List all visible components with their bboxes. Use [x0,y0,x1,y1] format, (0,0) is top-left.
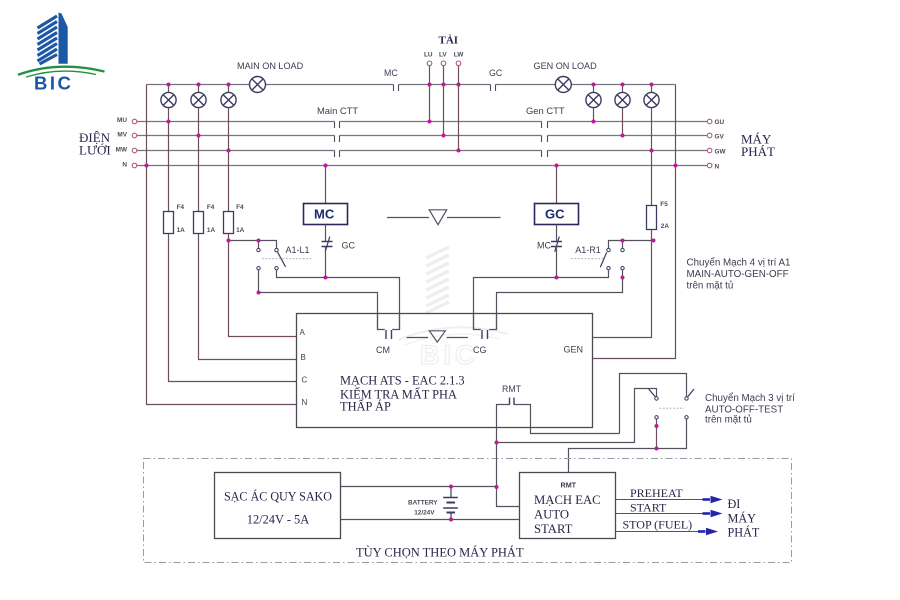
svg-text:Gen CTT: Gen CTT [526,105,565,116]
svg-text:GEN ON LOAD: GEN ON LOAD [534,61,598,71]
svg-text:MW: MW [116,146,128,153]
svg-text:Chuyển Mạch 3 vị trí: Chuyển Mạch 3 vị trí [705,393,795,404]
svg-text:B: B [301,353,306,362]
NC contact GC under coil MC [325,225,327,242]
svg-text:LW: LW [454,52,465,59]
fuse F5 wire [593,230,652,338]
svg-text:MAIN ON LOAD: MAIN ON LOAD [237,61,304,71]
svg-text:2A: 2A [661,223,670,230]
contactor coil MC [304,204,348,225]
wire A1-R1 pole1 to CG [474,270,609,329]
wire charger plus to battery and RMT drop [341,486,497,488]
wire AUTO contact bottom [656,419,658,448]
svg-text:AUTO: AUTO [534,508,569,522]
terminal LU [427,61,432,66]
top load bus [147,84,676,86]
generator terminals [707,119,712,124]
wire TEST switch top feed [620,374,687,434]
load break symbol (triangle) top [387,210,501,225]
svg-text:MV: MV [117,132,127,139]
svg-text:GC: GC [342,241,356,251]
contactor coil GC [535,204,579,225]
svg-text:MC: MC [314,207,335,222]
svg-text:F4: F4 [236,204,244,211]
svg-text:MAIN-AUTO-GEN-OFF: MAIN-AUTO-GEN-OFF [687,269,789,280]
battery charger box SAC AC QUY SAKO [215,473,341,539]
svg-text:12/24V - 5A: 12/24V - 5A [247,513,309,527]
svg-text:Main CTT: Main CTT [317,105,358,116]
watermark BIC logo (faint center) [398,247,508,370]
arrow preheat [703,498,711,501]
svg-text:ĐI: ĐI [728,497,741,511]
svg-text:GU: GU [715,119,725,126]
svg-text:MU: MU [117,117,127,124]
battery 12/24V [443,487,458,520]
lamp HL2 [191,92,206,107]
lamp HL3 [221,92,236,107]
svg-text:A1-L1: A1-L1 [286,245,310,255]
svg-text:PREHEAT: PREHEAT [630,486,683,500]
contact MC on bus [394,85,399,92]
lamp MAIN ON LOAD [250,77,266,93]
switch A1-R1 feed wire [609,241,654,249]
svg-text:TÙY CHỌN THEO MÁY PHÁT: TÙY CHỌN THEO MÁY PHÁT [356,546,524,560]
svg-text:MẠCH EAC: MẠCH EAC [534,493,601,507]
wire A1-L1 pole1 to CM [277,270,400,329]
fuse column A wire [229,151,297,337]
lamp HL5 [615,92,630,107]
svg-text:MÁY: MÁY [728,512,757,526]
EAC controller box MACH EAC AUTO START [520,473,616,539]
wire lamp column 1 right [593,85,595,122]
BIC company logo [18,13,105,94]
svg-text:PHÁT: PHÁT [741,144,775,159]
wire RMT vertical to EAC [497,443,520,507]
ATS controller box [297,314,593,428]
svg-text:MẠCH ATS - EAC 2.1.3: MẠCH ATS - EAC 2.1.3 [340,374,465,388]
contact CM input [378,314,400,330]
load break symbol (triangle) in box [407,331,468,342]
svg-text:GEN: GEN [564,345,584,355]
switch A1-R1 [600,248,624,269]
svg-text:trên mặt tủ: trên mặt tủ [705,414,752,425]
arrow start [703,512,711,515]
optional section dashed box [144,459,792,563]
terminal LW [456,61,461,66]
svg-text:12/24V: 12/24V [414,510,435,517]
svg-text:RMT: RMT [561,481,577,490]
wire lamp column 3 left [228,85,230,151]
svg-text:LƯỚI: LƯỚI [79,143,111,158]
Gen CTT contacts [542,122,548,158]
svg-text:BATTERY: BATTERY [408,500,438,507]
output PREHEAT [616,499,707,501]
mains input terminals [132,119,137,124]
svg-text:TẢI: TẢI [439,35,459,47]
svg-text:Chuyển Mạch 4 vị trí A1: Chuyển Mạch 4 vị trí A1 [687,257,791,268]
svg-text:GC: GC [545,207,565,222]
wire A1-L1 pole2 to CM [259,270,378,329]
right bus drop wire to N and GEN input [593,85,676,359]
svg-text:MC: MC [384,68,398,78]
contact GC on bus [491,85,496,92]
wire LV [443,66,445,136]
svg-text:BIC: BIC [420,340,479,370]
svg-text:N: N [715,164,720,171]
wire AUTO contact top feed [497,389,657,443]
NC contact MC under coil GC [556,225,558,242]
svg-text:THẤP ÁP: THẤP ÁP [340,399,391,414]
wire charger minus to EAC box [341,519,520,521]
fuse F4 (C) [164,212,174,234]
svg-text:1A: 1A [236,227,245,234]
fuse F4 (A) [224,212,234,234]
wire lamp column 3 right (to fuse F5) [651,85,653,206]
left trunk wire [147,85,297,405]
svg-text:F5: F5 [660,201,668,208]
wire A1-R1 pole2 to CG [497,270,623,329]
switch A1-L1 feed wire [229,241,277,249]
svg-text:GV: GV [715,134,725,141]
wire TEST contact bottom [569,419,687,472]
wire LW [458,66,460,151]
svg-text:MC: MC [537,241,551,251]
lamp HL1 [161,92,176,107]
fuse F4 (B) [194,212,204,234]
contact CG input [474,314,497,330]
wire lamp column 2 left [198,85,200,136]
svg-text:LV: LV [439,52,447,59]
MC coil feed wire from N [325,166,327,204]
lamp HL4 [586,92,601,107]
svg-text:START: START [630,500,667,514]
svg-text:C: C [302,376,308,385]
svg-text:STOP (FUEL): STOP (FUEL) [623,518,693,532]
svg-text:CM: CM [376,345,390,355]
svg-text:N: N [302,398,308,407]
arrow stop [698,530,706,533]
svg-text:N: N [122,161,127,168]
svg-text:F4: F4 [207,204,215,211]
wire LU [429,66,431,122]
svg-text:START: START [534,522,573,536]
output STOP (FUEL) [616,531,703,533]
svg-text:GW: GW [715,149,727,156]
svg-text:GC: GC [489,68,503,78]
fuse F5 [647,206,657,230]
svg-text:F4: F4 [177,204,185,211]
Main CTT contacts [335,122,340,158]
svg-text:A: A [300,328,306,337]
svg-text:LU: LU [424,52,433,59]
svg-text:trên mặt tủ: trên mặt tủ [687,281,734,292]
svg-text:RMT: RMT [502,384,522,394]
svg-text:1A: 1A [177,227,186,234]
terminal LV [441,61,446,66]
wire lamp column 2 right [622,85,624,136]
svg-text:PHÁT: PHÁT [728,526,760,540]
fuse column C wire [169,122,297,382]
svg-text:SẠC ÁC QUY SAKO: SẠC ÁC QUY SAKO [224,490,332,504]
svg-text:CG: CG [473,345,487,355]
GC coil feed wire from N [556,166,558,204]
lamp GEN ON LOAD [555,77,571,93]
output START [616,513,707,515]
svg-text:1A: 1A [207,227,216,234]
switch AUTO-OFF-TEST [649,389,694,419]
switch A1-L1 [257,248,286,269]
fuse column B wire [199,136,297,360]
mains/gen phase rows MU MV MW N [137,122,708,166]
svg-text:A1-R1: A1-R1 [575,245,601,255]
lamp HL6 [644,92,659,107]
wire lamp column 1 left [168,85,170,122]
svg-text:BIC: BIC [34,73,73,94]
